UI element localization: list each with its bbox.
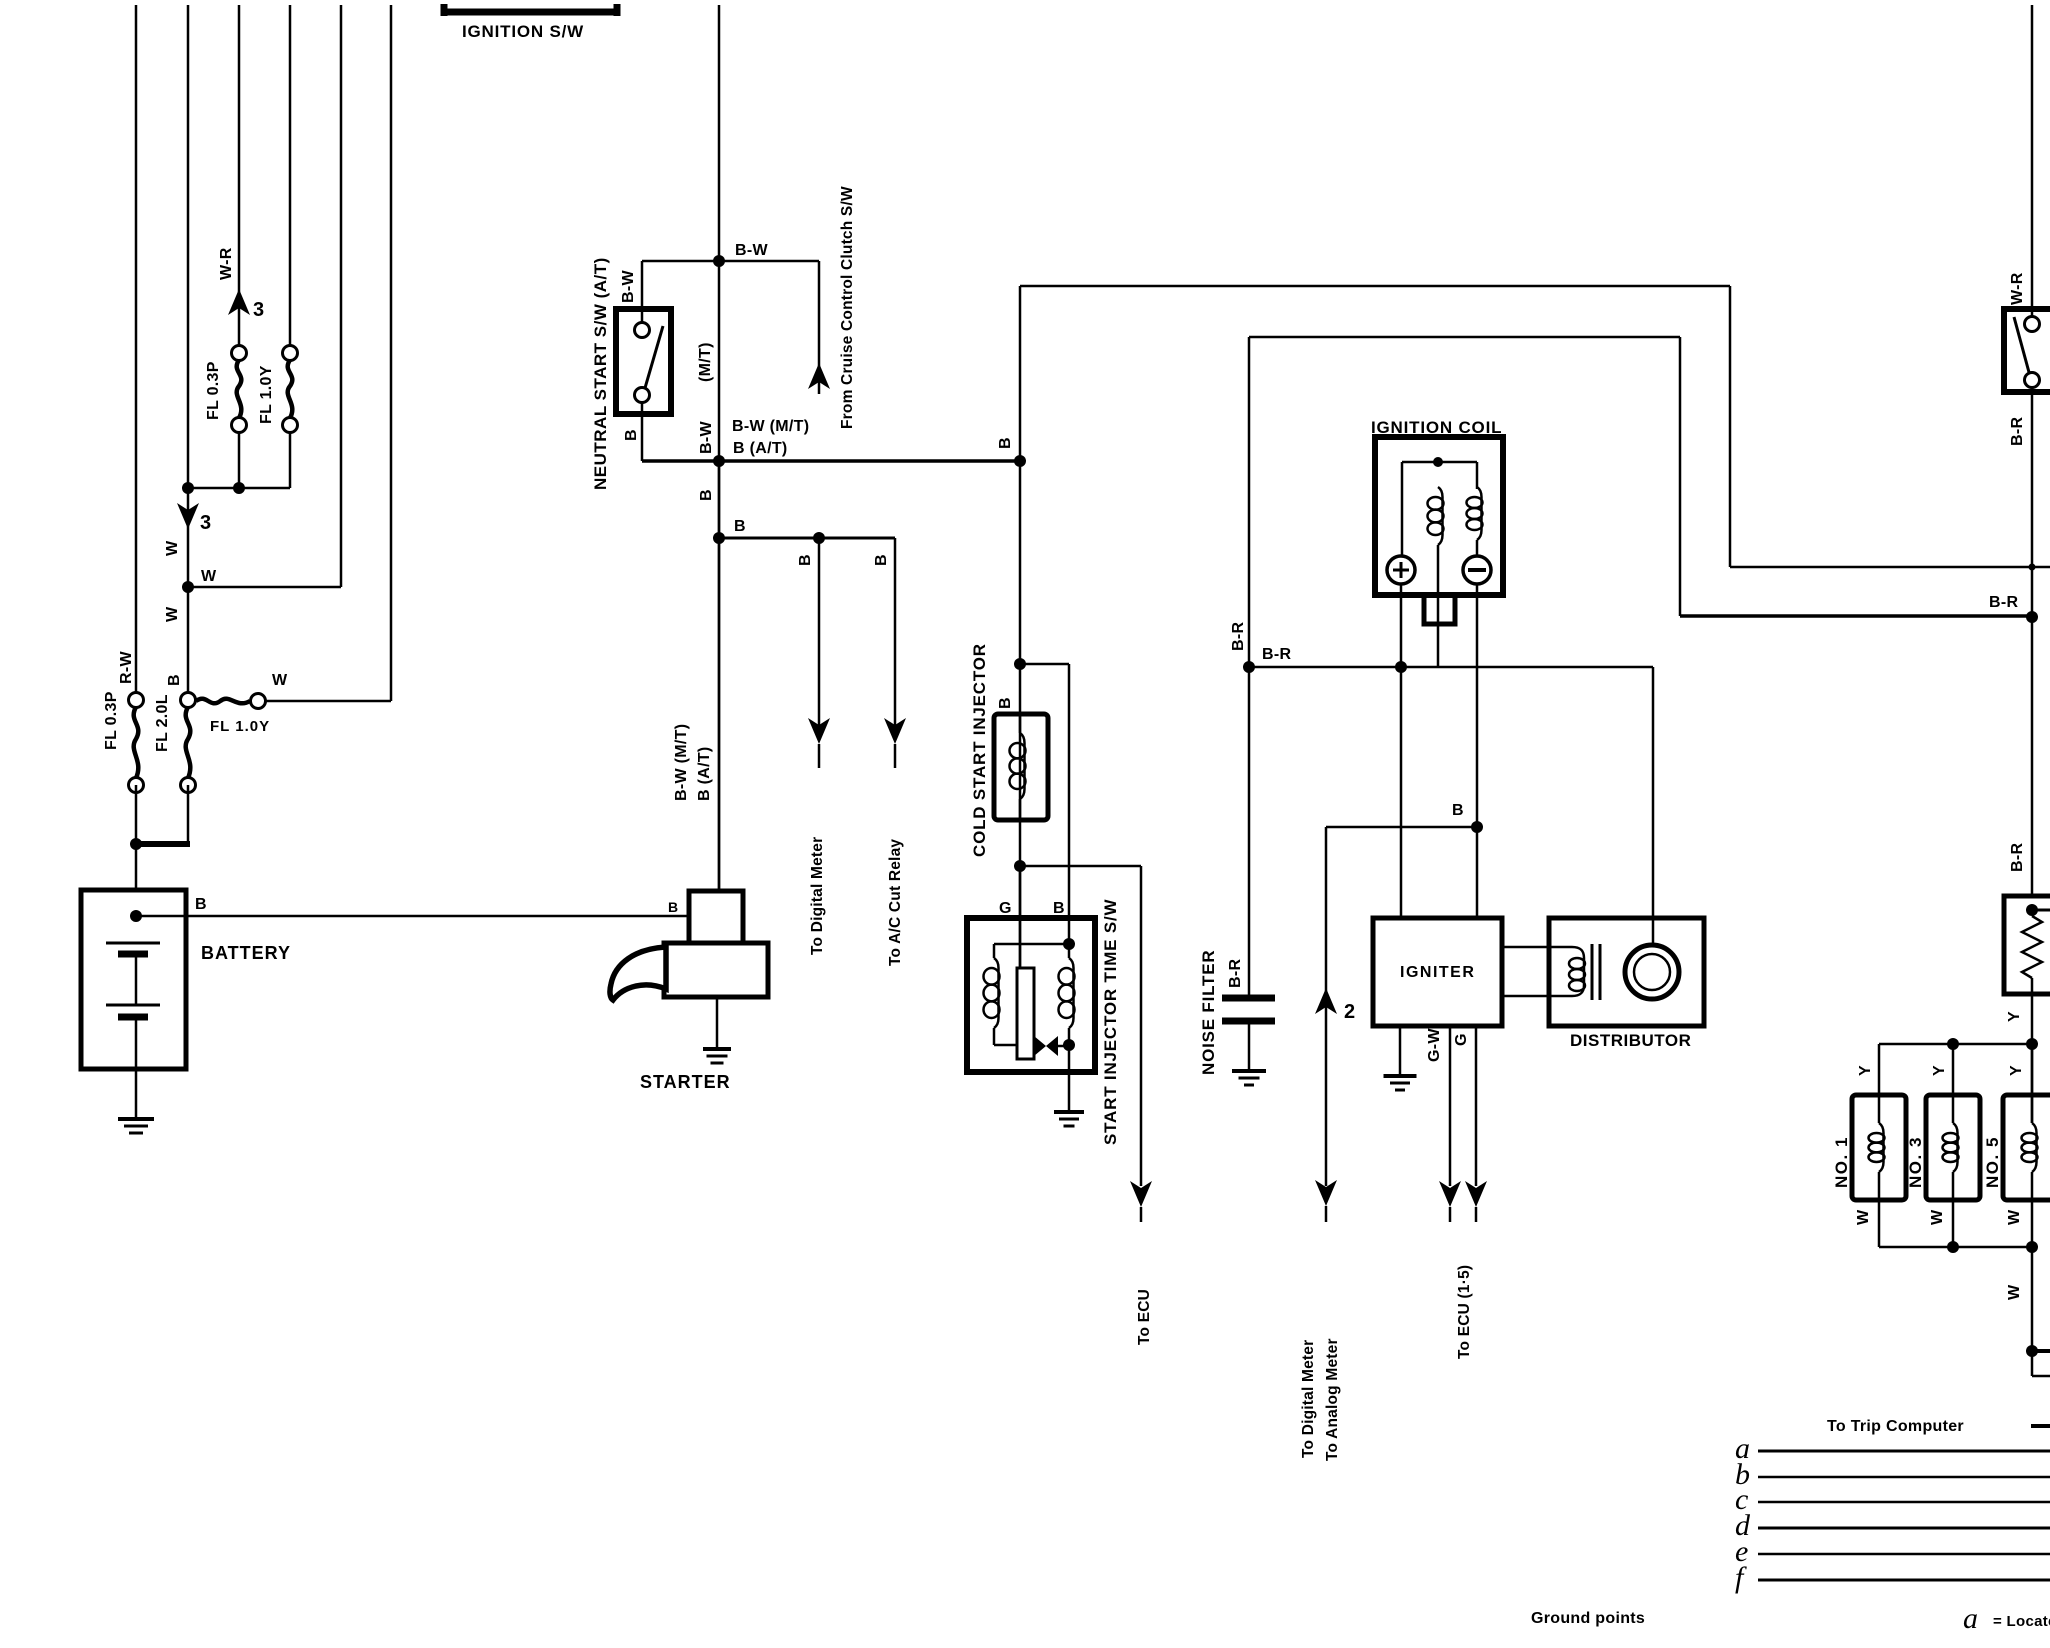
svg-text:NOISE FILTER: NOISE FILTER xyxy=(1199,950,1218,1075)
svg-text:To A/C Cut Relay: To A/C Cut Relay xyxy=(887,839,904,966)
svg-text:B-R: B-R xyxy=(2009,417,2026,446)
svg-text:B: B xyxy=(734,518,746,535)
svg-text:W: W xyxy=(1855,1209,1872,1225)
svg-text:W: W xyxy=(164,540,181,556)
svg-text:3: 3 xyxy=(253,299,264,321)
svg-text:DISTRIBUTOR: DISTRIBUTOR xyxy=(1570,1031,1691,1050)
svg-text:B-W (M/T): B-W (M/T) xyxy=(673,724,690,801)
svg-text:B-R: B-R xyxy=(1989,594,2018,611)
svg-text:R-W: R-W xyxy=(118,651,135,684)
svg-text:FL 0.3P: FL 0.3P xyxy=(103,691,120,750)
svg-text:Y: Y xyxy=(2006,1011,2023,1022)
svg-text:B-R: B-R xyxy=(1262,646,1291,663)
svg-text:B-W: B-W xyxy=(735,242,768,259)
svg-text:B: B xyxy=(997,697,1014,709)
svg-text:B (A/T): B (A/T) xyxy=(733,440,788,457)
svg-text:STARTER: STARTER xyxy=(640,1072,731,1092)
svg-text:B: B xyxy=(668,899,679,915)
svg-text:B-R: B-R xyxy=(1230,622,1247,651)
svg-text:Y: Y xyxy=(1931,1065,1948,1076)
svg-text:2: 2 xyxy=(1344,1001,1355,1023)
svg-text:W: W xyxy=(1929,1209,1946,1225)
svg-text:(M/T): (M/T) xyxy=(697,342,714,382)
svg-text:To Digital Meter: To Digital Meter xyxy=(809,837,826,955)
svg-text:B: B xyxy=(997,437,1014,449)
svg-text:Y: Y xyxy=(2008,1065,2025,1076)
svg-text:From Cruise Control Clutch S/W: From Cruise Control Clutch S/W xyxy=(839,186,856,429)
svg-text:W: W xyxy=(272,672,288,689)
svg-text:FL 1.0Y: FL 1.0Y xyxy=(210,718,270,735)
svg-text:W-R: W-R xyxy=(2009,272,2026,305)
svg-text:W: W xyxy=(2006,1284,2023,1300)
svg-text:W: W xyxy=(164,606,181,622)
svg-text:To Digital Meter: To Digital Meter xyxy=(1300,1340,1317,1458)
svg-text:W: W xyxy=(2006,1209,2023,1225)
svg-text:NEUTRAL START S/W (A/T): NEUTRAL START S/W (A/T) xyxy=(591,257,610,490)
svg-text:NO. 3: NO. 3 xyxy=(1906,1136,1925,1188)
svg-text:To Trip Computer: To Trip Computer xyxy=(1827,1418,1964,1435)
svg-text:B: B xyxy=(1452,802,1464,819)
svg-text:To ECU: To ECU xyxy=(1136,1289,1153,1345)
svg-text:G: G xyxy=(1453,1033,1470,1046)
svg-text:FL 1.0Y: FL 1.0Y xyxy=(258,365,275,424)
svg-text:START INJECTOR TIME S/W: START INJECTOR TIME S/W xyxy=(1101,899,1120,1145)
svg-text:BATTERY: BATTERY xyxy=(201,943,291,963)
svg-text:B-R: B-R xyxy=(1227,959,1244,988)
svg-text:a: a xyxy=(1963,1602,1978,1635)
svg-text:B-W (M/T): B-W (M/T) xyxy=(732,418,809,435)
svg-text:FL 0.3P: FL 0.3P xyxy=(205,361,222,420)
svg-text:COLD START INJECTOR: COLD START INJECTOR xyxy=(970,643,989,857)
svg-text:Y: Y xyxy=(1857,1065,1874,1076)
svg-text:B-W: B-W xyxy=(620,270,637,303)
svg-text:IGNITER: IGNITER xyxy=(1400,964,1475,981)
svg-text:3: 3 xyxy=(200,512,211,534)
svg-text:Ground points: Ground points xyxy=(1531,1610,1645,1627)
svg-text:B (A/T): B (A/T) xyxy=(696,746,713,801)
svg-text:B: B xyxy=(698,489,715,501)
svg-text:W: W xyxy=(201,568,217,585)
svg-text:W-R: W-R xyxy=(218,247,235,280)
svg-text:G-W: G-W xyxy=(1426,1028,1443,1062)
svg-text:B: B xyxy=(195,896,207,913)
svg-text:To Analog Meter: To Analog Meter xyxy=(1324,1338,1341,1461)
svg-text:B: B xyxy=(1053,900,1065,917)
svg-text:B: B xyxy=(623,429,640,441)
svg-text:G: G xyxy=(999,900,1012,917)
svg-text:B: B xyxy=(797,554,814,566)
svg-text:To ECU (1·5): To ECU (1·5) xyxy=(1456,1265,1473,1359)
svg-text:NO. 1: NO. 1 xyxy=(1832,1136,1851,1188)
svg-text:B: B xyxy=(166,674,183,686)
svg-text:B: B xyxy=(873,554,890,566)
svg-text:IGNITION S/W: IGNITION S/W xyxy=(462,22,584,41)
svg-text:FL 2.0L: FL 2.0L xyxy=(154,694,171,752)
svg-text:B-R: B-R xyxy=(2009,843,2026,872)
svg-text:= Located: = Located xyxy=(1993,1613,2050,1630)
svg-text:B-W: B-W xyxy=(698,421,715,454)
svg-text:NO. 5: NO. 5 xyxy=(1983,1136,2002,1188)
